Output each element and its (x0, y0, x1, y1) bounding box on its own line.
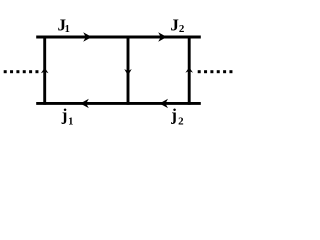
svg-text:j: j (170, 106, 177, 125)
svg-text:j: j (61, 106, 68, 125)
wire: bottom rail (36, 102, 201, 105)
svg-text:2: 2 (178, 116, 184, 128)
svg-text:2: 2 (179, 23, 185, 35)
wire: top rail (36, 36, 201, 39)
wire: right dotted continuation (198, 70, 233, 73)
arrow right on top-left segment (current J1) (83, 32, 92, 41)
arrow up on right rung (185, 67, 193, 73)
arrow left on bottom-left segment (current j1) (80, 99, 89, 108)
arrow left on bottom-right segment (current j2) (159, 99, 168, 108)
svg-text:1: 1 (68, 116, 73, 127)
wire: right vertical rung (188, 36, 191, 105)
svg-text:1: 1 (65, 24, 70, 35)
arrow right on top-right segment (current J2) (158, 32, 167, 41)
wire: left vertical rung (43, 36, 46, 105)
arrow down on middle rung (124, 69, 131, 76)
wire: left dotted continuation (4, 70, 39, 73)
arrow up on left rung (41, 68, 49, 74)
wire: middle vertical rung (127, 36, 130, 105)
